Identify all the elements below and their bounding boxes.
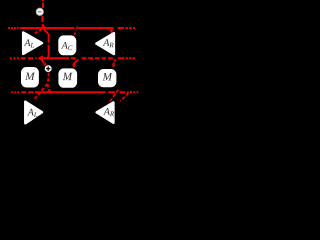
wire middle bus right dashed portion — [71, 57, 135, 59]
node plus circle — [44, 65, 52, 73]
wire branch arrow into M2 top — [74, 60, 78, 65]
wire dashed vertical from plus node with bend into bottom bus — [48, 73, 53, 93]
op-amp A_L row3 — [25, 102, 42, 124]
wire dashed diagonal from A_L top edge up to junction — [35, 29, 43, 34]
wire diagonal from junction down-right — [44, 29, 49, 34]
wire dashed diagonal into A_R bottom corner — [120, 93, 128, 101]
wire vertical feedback line x=48.6 with bend into middle bus — [45, 34, 48, 59]
op-amp A_R row3 — [97, 103, 114, 123]
wire dashed diagonal into A_R bottom triangle — [109, 90, 118, 104]
op-amp A_L row1 — [23, 33, 42, 54]
block M3 — [98, 69, 116, 87]
wire arrow from A_R up into top bus — [110, 32, 113, 34]
wire vertical dashed line into minus node — [41, 0, 44, 26]
wire diagonal arrow into plus node — [42, 60, 45, 63]
block M2 — [58, 68, 77, 87]
wire bottom bus — [11, 91, 138, 93]
arrowhead down at top junction — [41, 26, 45, 30]
wire middle bus left dashed portion — [10, 57, 37, 59]
wire dashed diagonal into A_L bottom triangle — [34, 84, 48, 100]
block A_C — [58, 35, 76, 55]
block M1 — [21, 67, 39, 88]
wire middle bus solid center — [43, 57, 69, 59]
node minus circle — [36, 8, 44, 16]
arrowhead left on middle bus — [37, 55, 43, 61]
op-amp A_R row1 — [96, 33, 114, 54]
wire branch arrow into M3 top — [114, 59, 116, 64]
wire arrow from A_C up into top bus — [74, 31, 76, 35]
wire top horizontal bus — [8, 27, 135, 29]
